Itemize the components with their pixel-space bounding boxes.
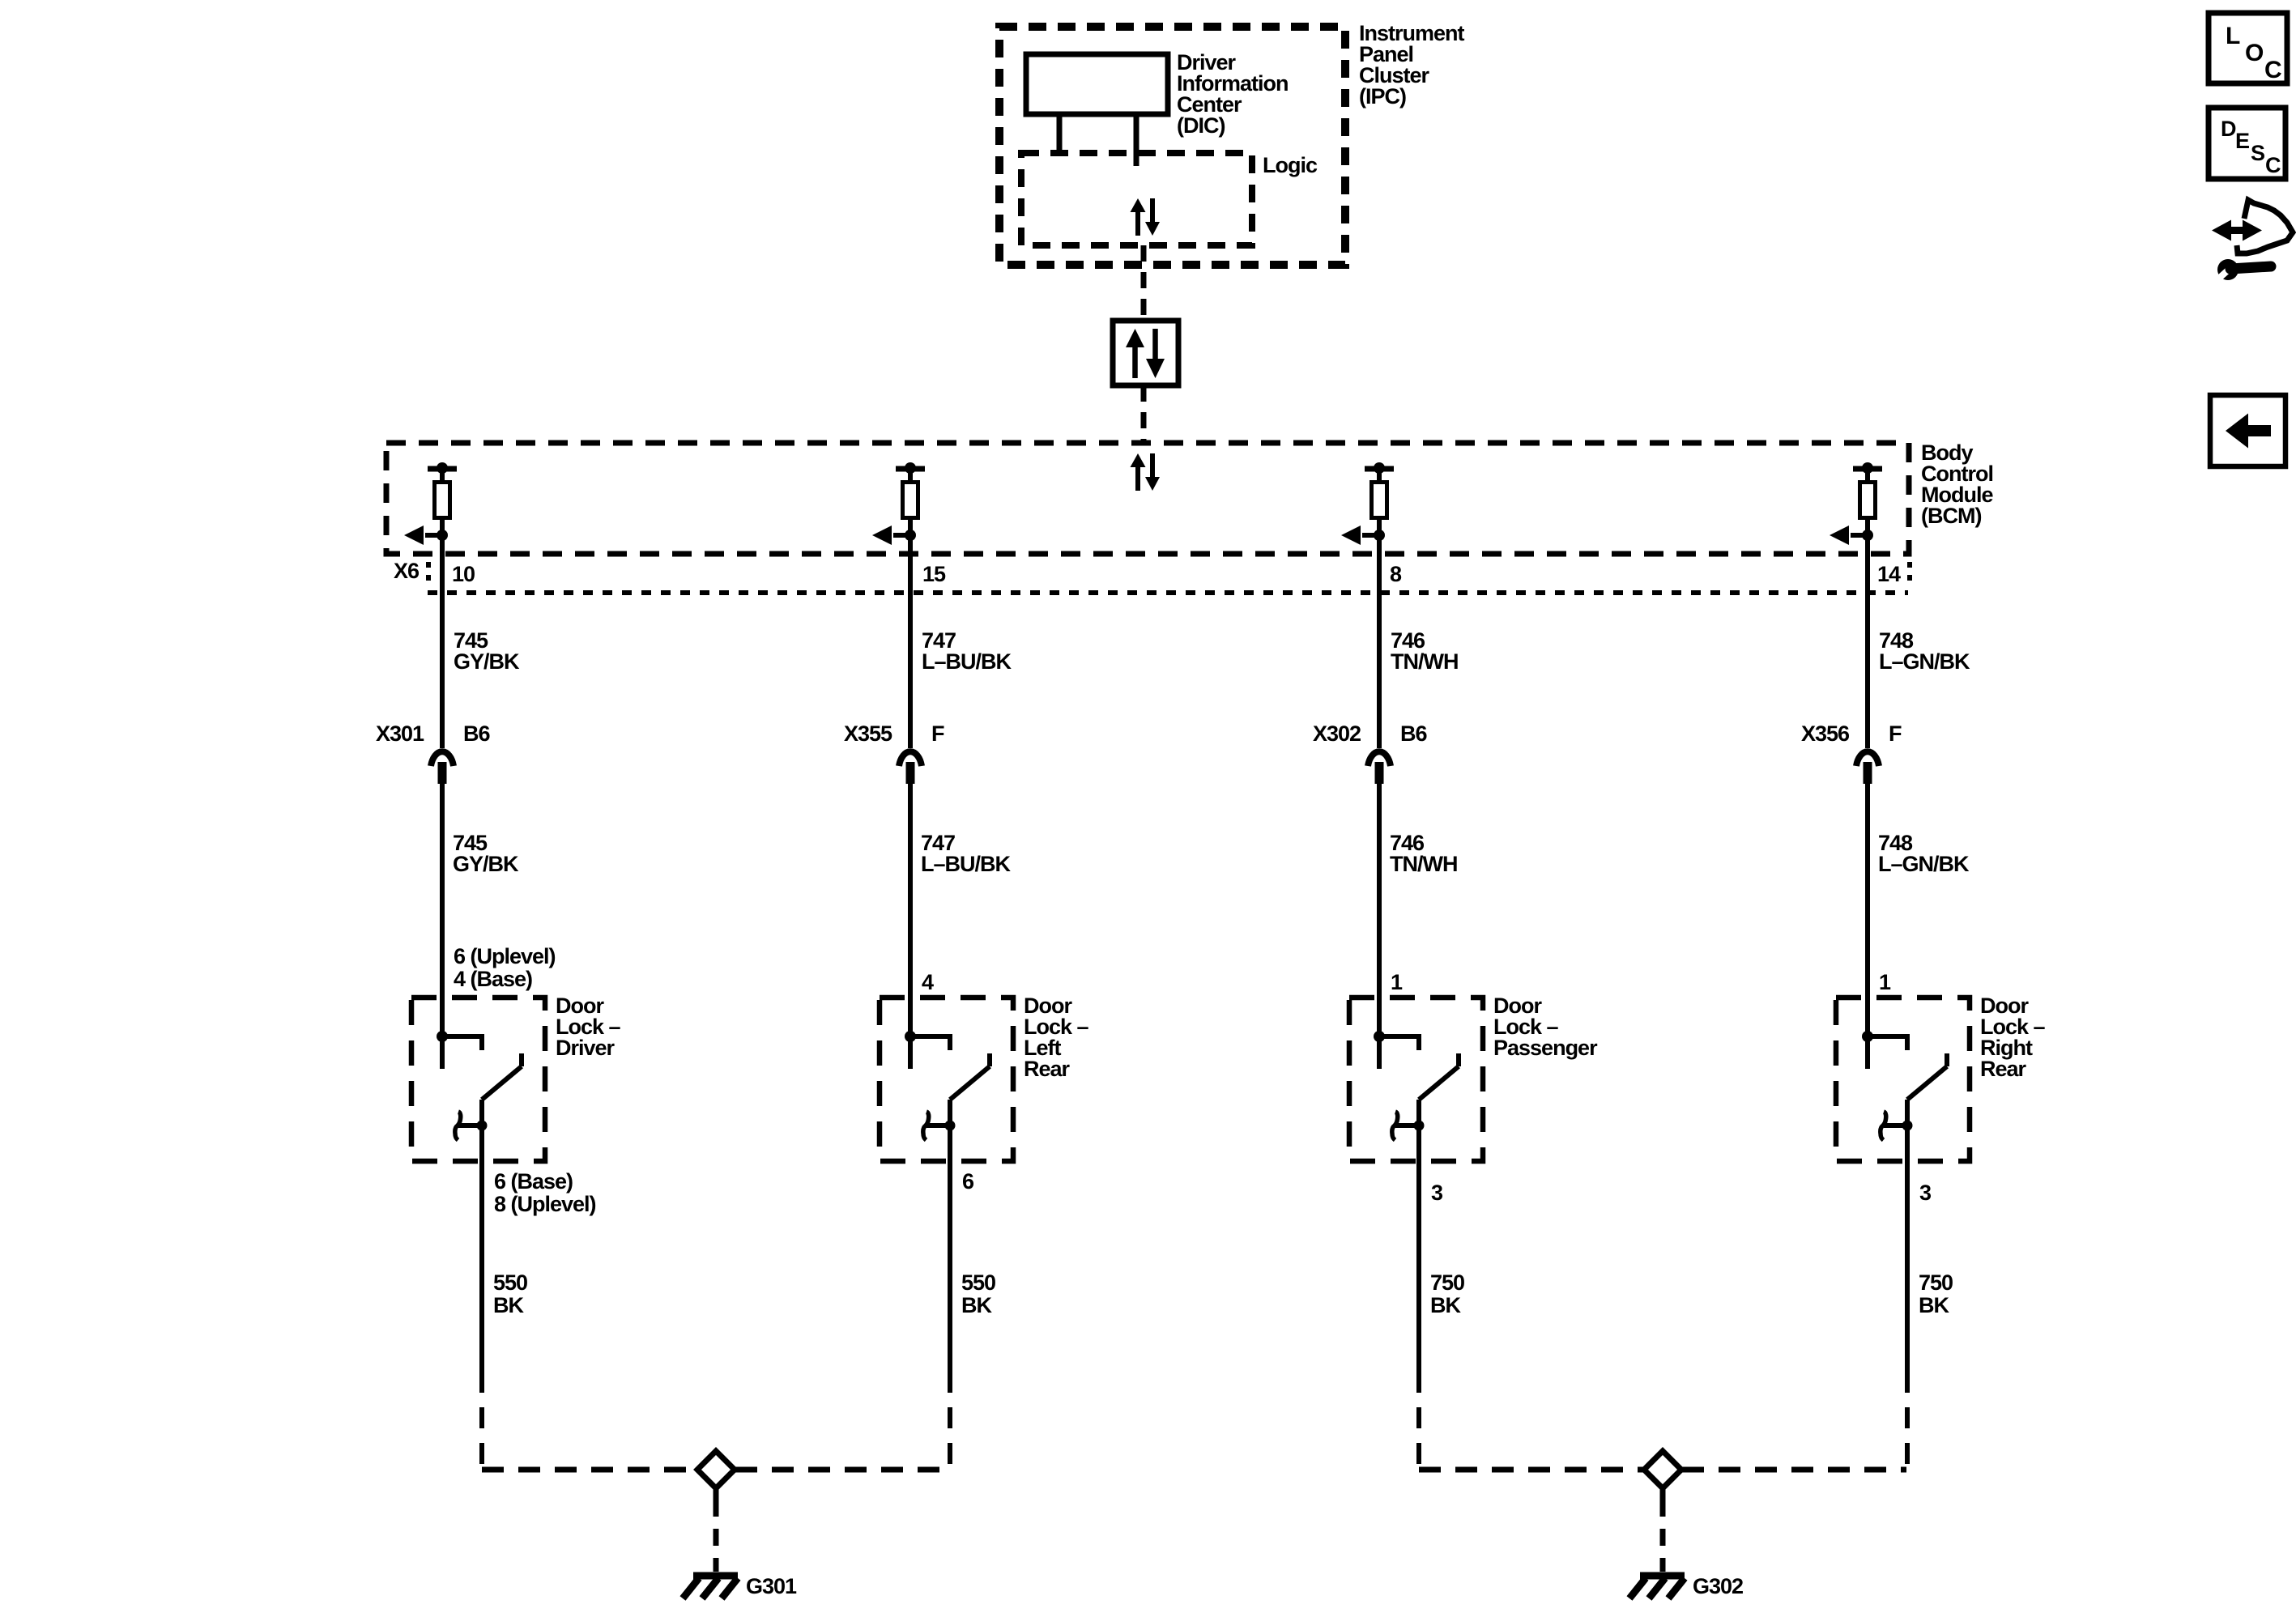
serial data arrows inside BCM [1131, 453, 1161, 491]
junction node 1 [437, 530, 448, 541]
connector X6 label [394, 559, 420, 583]
wire: DIC right lead to Logic box [1134, 114, 1139, 166]
svg-text:1: 1 [1391, 970, 1403, 994]
Door Lock - Right Rear: fixed contact [1868, 1034, 1907, 1050]
svg-text:G302: G302 [1693, 1574, 1743, 1598]
svg-text:X301: X301 [376, 721, 424, 746]
connector X301 label [376, 721, 424, 746]
svg-text:Driver: Driver [556, 1036, 616, 1060]
wire label 748 L–GN/BK (lower) [1878, 831, 1970, 876]
wire label 550 BK [961, 1270, 995, 1317]
svg-text:F: F [931, 721, 944, 746]
svg-text:4: 4 [922, 970, 934, 994]
svg-text:6 (Uplevel): 6 (Uplevel) [454, 944, 556, 968]
wire label 745 GY/BK (lower) [453, 831, 519, 876]
connector-view icon (double arrow, connector outline, wrench) [2212, 200, 2293, 284]
svg-text:3: 3 [1919, 1181, 1932, 1205]
svg-text:S: S [2251, 141, 2264, 165]
svg-text:L: L [2226, 23, 2240, 49]
svg-text:GY/BK: GY/BK [453, 852, 519, 876]
wire: dashed ground bus to splice (G302) [1419, 1467, 1906, 1473]
Door Lock - Passenger: fixed contact [1379, 1034, 1419, 1050]
wire label 746 TN/WH (upper) [1391, 628, 1458, 674]
Door Lock - Driver: output pin label [494, 1169, 596, 1216]
svg-text:6: 6 [962, 1169, 974, 1194]
BCM pin 14 label [1877, 562, 1901, 586]
wire: dashed ground bus to splice (G301) [482, 1467, 950, 1473]
svg-text:BK: BK [1919, 1293, 1949, 1317]
splice symbol above G301 [697, 1451, 735, 1488]
svg-text:550: 550 [493, 1270, 527, 1295]
Door Lock - Right Rear: name label [1980, 994, 2046, 1081]
signal arrow at node 4 (to BCM logic) [1830, 526, 1868, 545]
svg-text:Rear: Rear [1980, 1057, 2027, 1081]
in-line connector X302 symbol [1368, 751, 1391, 784]
wire: switch output to ground bus (550 BK) [948, 1161, 952, 1470]
Body Control Module (BCM) dashed box [386, 443, 1909, 554]
svg-text:6 (Base): 6 (Base) [494, 1169, 573, 1194]
Door Lock - Passenger: momentary-contact spring symbol [1392, 1112, 1425, 1140]
connector band divider (left) [426, 562, 431, 587]
Door Lock - Right Rear: output pin label [1919, 1181, 1932, 1205]
svg-text:14: 14 [1877, 562, 1901, 586]
Door Lock - Left Rear: output pin label [962, 1169, 974, 1194]
svg-text:L–GN/BK: L–GN/BK [1879, 649, 1970, 674]
resistor R2 (BCM internal) [903, 483, 918, 518]
svg-text:B6: B6 [463, 721, 490, 746]
Door Lock - Right Rear: switch common junction [1862, 1031, 1873, 1042]
wire label 747 L–BU/BK (upper) [922, 628, 1012, 674]
svg-text:Passenger: Passenger [1493, 1036, 1598, 1060]
connector band dotted line [428, 590, 1908, 595]
svg-text:Logic: Logic [1263, 153, 1318, 177]
svg-text:4 (Base): 4 (Base) [454, 967, 532, 991]
junction node 4 [1862, 530, 1873, 541]
wire: splice to ground G302 [1660, 1488, 1666, 1572]
connector X302 pin B6 label [1400, 721, 1427, 746]
wire: connector X301 to door lock switch [440, 784, 445, 1069]
svg-text:L–BU/BK: L–BU/BK [921, 852, 1012, 876]
wire label 746 TN/WH (lower) [1390, 831, 1457, 876]
connector X301 pin B6 label [463, 721, 490, 746]
svg-text:TN/WH: TN/WH [1391, 649, 1458, 674]
Door Lock - Passenger: output wire inside box [1416, 1100, 1421, 1161]
Door Lock - Passenger: input pin label [1391, 970, 1403, 994]
Instrument Panel Cluster (IPC) dashed box [999, 27, 1345, 265]
svg-text:X6: X6 [394, 559, 420, 583]
Door Lock - Driver: name label [556, 994, 621, 1060]
serial data arrows inside Logic box [1131, 198, 1161, 236]
Door Lock - Left Rear: momentary-contact spring symbol [923, 1112, 956, 1140]
connector band divider (right) [1907, 562, 1912, 587]
wire: BCM pin 4 lead down to connector [1865, 535, 1870, 748]
connector X356 label [1801, 721, 1850, 746]
wire: resistor R1 to junction [440, 517, 445, 535]
wire: BCM pin 1 lead down to connector [440, 535, 445, 748]
wire label 748 L–GN/BK (upper) [1879, 628, 1970, 674]
svg-text:BK: BK [1430, 1293, 1461, 1317]
BCM pin 8 label [1390, 562, 1402, 586]
wire: switch output to ground bus (750 BK) [1905, 1161, 1910, 1470]
back arrow icon box [2210, 395, 2285, 466]
svg-text:X355: X355 [844, 721, 892, 746]
svg-text:750: 750 [1919, 1270, 1953, 1295]
Door Lock - Passenger: dashed component box [1349, 998, 1483, 1161]
BCM internal pull-up bar, node 1 [428, 462, 457, 480]
wire: resistor R3 to junction [1377, 517, 1382, 535]
connector X302 label [1313, 721, 1361, 746]
svg-text:B6: B6 [1400, 721, 1427, 746]
wire label 550 BK [493, 1270, 527, 1317]
svg-text:BK: BK [493, 1293, 524, 1317]
ground label G301 [746, 1574, 797, 1598]
wire: dashed serial data line from Logic box down [1141, 245, 1147, 321]
svg-text:3: 3 [1431, 1181, 1443, 1205]
wire: resistor R4 to junction [1865, 517, 1870, 535]
in-line connector X355 symbol [899, 751, 922, 784]
in-line connector X356 symbol [1856, 751, 1879, 784]
Door Lock - Right Rear: switch blade [1907, 1053, 1947, 1100]
serial data arrows in symbol box [1126, 329, 1165, 378]
ground symbol G301 [683, 1576, 738, 1598]
svg-text:8: 8 [1390, 562, 1402, 586]
BCM label [1921, 440, 1993, 528]
signal arrow at node 1 (to BCM logic) [404, 526, 442, 545]
Door Lock - Driver: switch blade [482, 1053, 522, 1100]
wire: BCM pin 2 lead down to connector [908, 535, 913, 748]
svg-text:TN/WH: TN/WH [1390, 852, 1457, 876]
junction node 2 [905, 530, 916, 541]
svg-text:F: F [1889, 721, 1902, 746]
wire label 747 L–BU/BK (lower) [921, 831, 1012, 876]
wire: connector X302 to door lock switch [1377, 784, 1382, 1069]
BCM internal pull-up bar, node 3 [1365, 462, 1394, 480]
Door Lock - Passenger: output pin label [1431, 1181, 1443, 1205]
svg-text:15: 15 [922, 562, 946, 586]
svg-text:8 (Uplevel): 8 (Uplevel) [494, 1192, 596, 1216]
svg-text:L–GN/BK: L–GN/BK [1878, 852, 1970, 876]
svg-text:1: 1 [1879, 970, 1891, 994]
resistor R4 (BCM internal) [1860, 483, 1876, 518]
in-line connector X301 symbol [431, 751, 454, 784]
svg-text:(IPC): (IPC) [1359, 84, 1406, 109]
Door Lock - Left Rear: dashed component box [880, 998, 1013, 1161]
LOC icon box [2209, 13, 2287, 83]
IPC label [1359, 21, 1465, 109]
wire: switch output to ground bus (750 BK) [1416, 1161, 1421, 1470]
wire: splice to ground G301 [714, 1488, 719, 1572]
Door Lock - Driver: dashed component box [411, 998, 545, 1161]
connector X356 pin F label [1889, 721, 1902, 746]
svg-text:GY/BK: GY/BK [454, 649, 520, 674]
Door Lock - Driver: fixed contact [442, 1034, 482, 1050]
Door Lock - Right Rear: dashed component box [1836, 998, 1970, 1161]
Door Lock - Left Rear: switch blade [950, 1053, 990, 1100]
resistor R1 (BCM internal) [435, 483, 450, 518]
svg-text:C: C [2265, 153, 2281, 177]
Door Lock - Left Rear: switch common junction [905, 1031, 916, 1042]
Door Lock - Left Rear: fixed contact [910, 1034, 950, 1050]
Driver Information Center (DIC) box [1026, 54, 1168, 114]
wire label 750 BK [1430, 1270, 1464, 1317]
Door Lock - Driver: switch common junction [437, 1031, 448, 1042]
DESC icon box [2209, 108, 2285, 179]
resistor R3 (BCM internal) [1372, 483, 1387, 518]
svg-text:D: D [2221, 117, 2236, 141]
wire: dashed serial data line from symbol box to BCM [1141, 385, 1147, 443]
Door Lock - Driver: output wire inside box [479, 1100, 484, 1161]
Logic label [1263, 153, 1318, 177]
splice symbol above G302 [1644, 1451, 1681, 1488]
wire: DIC left lead to Logic box [1057, 114, 1063, 154]
wire label 750 BK [1919, 1270, 1953, 1317]
Door Lock - Passenger: switch blade [1419, 1053, 1459, 1100]
svg-text:X302: X302 [1313, 721, 1361, 746]
svg-text:G301: G301 [746, 1574, 797, 1598]
svg-text:(DIC): (DIC) [1177, 113, 1225, 138]
Door Lock - Driver: input pin label [454, 944, 556, 991]
Door Lock - Left Rear: output wire inside box [948, 1100, 952, 1161]
signal arrow at node 3 (to BCM logic) [1341, 526, 1379, 545]
wire: resistor R2 to junction [908, 517, 913, 535]
serial data symbol box [1113, 321, 1178, 385]
Door Lock - Left Rear: input pin label [922, 970, 934, 994]
ground label G302 [1693, 1574, 1743, 1598]
ground symbol G302 [1629, 1576, 1685, 1598]
svg-text:C: C [2264, 57, 2281, 83]
svg-text:550: 550 [961, 1270, 995, 1295]
svg-text:750: 750 [1430, 1270, 1464, 1295]
wire: switch output to ground bus (550 BK) [479, 1161, 484, 1470]
Door Lock - Passenger: name label [1493, 994, 1598, 1060]
svg-text:O: O [2245, 40, 2264, 66]
svg-text:L–BU/BK: L–BU/BK [922, 649, 1012, 674]
svg-text:(BCM): (BCM) [1921, 504, 1981, 528]
svg-text:E: E [2235, 129, 2249, 153]
Door Lock - Driver: momentary-contact spring symbol [455, 1112, 488, 1140]
Door Lock - Passenger: switch common junction [1374, 1031, 1385, 1042]
connector X355 pin F label [931, 721, 944, 746]
Door Lock - Right Rear: momentary-contact spring symbol [1881, 1112, 1913, 1140]
svg-text:X356: X356 [1801, 721, 1850, 746]
signal arrow at node 2 (to BCM logic) [872, 526, 910, 545]
Door Lock - Right Rear: input pin label [1879, 970, 1891, 994]
wire: connector X356 to door lock switch [1865, 784, 1870, 1069]
svg-text:BK: BK [961, 1293, 992, 1317]
BCM internal pull-up bar, node 2 [896, 462, 925, 480]
connector X355 label [844, 721, 892, 746]
wire label 745 GY/BK (upper) [454, 628, 520, 674]
Door Lock - Right Rear: output wire inside box [1905, 1100, 1910, 1161]
wire: connector X355 to door lock switch [908, 784, 913, 1069]
svg-text:10: 10 [452, 562, 475, 586]
DIC label [1177, 50, 1289, 138]
BCM pin 15 label [922, 562, 946, 586]
Logic dashed box inside IPC [1021, 153, 1252, 245]
svg-text:Rear: Rear [1024, 1057, 1071, 1081]
junction node 3 [1374, 530, 1385, 541]
wire: BCM pin 3 lead down to connector [1377, 535, 1382, 748]
Door Lock - Left Rear: name label [1024, 994, 1089, 1081]
BCM pin 10 label [452, 562, 475, 586]
BCM internal pull-up bar, node 4 [1853, 462, 1882, 480]
